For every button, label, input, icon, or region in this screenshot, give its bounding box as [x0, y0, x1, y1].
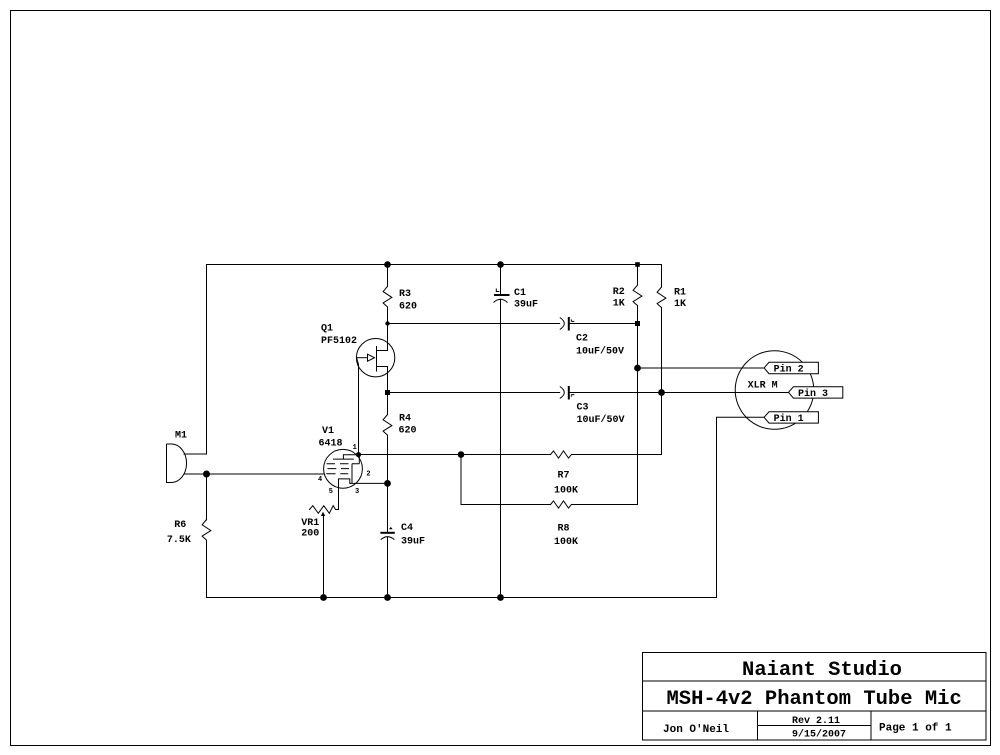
svg-text:C1: C1 [514, 288, 526, 299]
svg-text:Pin 3: Pin 3 [798, 388, 828, 400]
connector tag Pin 2 [764, 362, 818, 373]
node C1 bottom [497, 594, 504, 601]
resistor R2 [633, 285, 642, 306]
wire V1 pin5 lead [336, 488, 339, 509]
wire C2 row right [569, 323, 638, 325]
connector tag Pin 1 [764, 412, 818, 423]
wire R8 row right [572, 504, 638, 506]
resistor R6 [202, 520, 211, 541]
wire R7 row left [359, 454, 551, 456]
svg-text:R4: R4 [399, 414, 411, 425]
wire R6 bottom lead [206, 540, 208, 597]
svg-text:R2: R2 [613, 287, 625, 298]
svg-text:10uF/50V: 10uF/50V [576, 346, 624, 358]
wire R4 bottom lead [387, 435, 389, 483]
wire C4 bottom lead [387, 537, 389, 597]
wire M1 top terminal [184, 453, 207, 455]
svg-text:Naiant Studio: Naiant Studio [742, 659, 902, 682]
node C2 / R2 [635, 321, 640, 326]
svg-text:Page 1 of 1: Page 1 of 1 [879, 723, 952, 735]
trimmer VR1 wiper riser [323, 516, 325, 598]
wire R8 row left [461, 504, 551, 506]
capacitor C4 [380, 533, 394, 540]
wire R4 top lead [387, 393, 389, 415]
svg-text:2: 2 [366, 470, 370, 478]
wire C3 row left [388, 392, 560, 394]
capacitor C3 [560, 386, 575, 400]
svg-text:1K: 1K [674, 299, 686, 310]
wire C2 row left [388, 323, 560, 325]
node C4 bottom [384, 594, 391, 601]
transistor Q1 [356, 339, 394, 377]
capacitor C2 [560, 317, 575, 331]
wire Q1 source [387, 367, 389, 393]
node M1 / R6 [203, 471, 210, 478]
wire top bus [207, 264, 662, 266]
svg-text:V1: V1 [322, 426, 334, 437]
wire C4 top lead [387, 483, 389, 532]
svg-text:R8: R8 [558, 524, 570, 535]
svg-text:XLR M: XLR M [748, 381, 778, 392]
svg-text:R1: R1 [674, 288, 686, 299]
node C1 top [497, 261, 504, 268]
microphone capsule M1 [167, 444, 187, 483]
svg-text:3: 3 [355, 488, 359, 496]
node Q1 source [385, 390, 390, 395]
svg-text:620: 620 [399, 301, 417, 312]
svg-text:C2: C2 [576, 334, 588, 345]
svg-text:39uF: 39uF [514, 300, 538, 311]
node pin2 row [634, 365, 641, 372]
svg-text:Pin 2: Pin 2 [774, 364, 804, 376]
svg-text:1: 1 [353, 444, 357, 452]
svg-text:7.5K: 7.5K [167, 535, 191, 546]
node pin3 row [658, 389, 665, 396]
svg-text:5: 5 [329, 488, 333, 496]
wire left riser from top bus to M1 [206, 265, 208, 455]
title block [643, 653, 987, 741]
wire C3 row right to pin 3 tag [569, 392, 789, 394]
wire Q1 gate down to V1 pin1 [357, 358, 359, 455]
svg-text:4: 4 [318, 476, 322, 484]
node R7 left [458, 451, 465, 458]
svg-text:R3: R3 [399, 289, 411, 300]
svg-text:6418: 6418 [319, 439, 343, 450]
svg-text:9/15/2007: 9/15/2007 [792, 729, 846, 741]
svg-text:C3: C3 [577, 403, 589, 414]
node V1 pin1 [356, 452, 361, 457]
wire R2 top lead [637, 265, 639, 286]
node R3 top [384, 261, 391, 268]
connector tag Pin 3 [789, 387, 843, 398]
wire R3 top lead [387, 265, 389, 287]
wire C1 bottom lead [500, 299, 502, 597]
svg-text:39uF: 39uF [401, 537, 425, 548]
trimmer VR1 wiper arrow [321, 512, 325, 516]
wire R2 column below [637, 306, 639, 505]
svg-text:100K: 100K [554, 486, 578, 497]
svg-text:C4: C4 [401, 523, 413, 534]
svg-text:R6: R6 [174, 520, 186, 531]
svg-text:10uF/50V: 10uF/50V [577, 414, 625, 426]
svg-text:100K: 100K [554, 537, 578, 548]
node Q1 drain / C2 [385, 321, 389, 325]
svg-text:620: 620 [399, 426, 417, 437]
vacuum tube V1 [324, 449, 363, 488]
resistor R8 [551, 501, 572, 508]
resistor R4 [383, 415, 392, 436]
wire bottom bus [207, 597, 717, 599]
node VR1 bottom [320, 594, 327, 601]
wire pin1 riser [717, 417, 765, 597]
wire pin 2 row [638, 367, 765, 369]
wire R7 row right [572, 454, 662, 456]
XLR connector body [735, 351, 814, 430]
wire R1 column below [661, 308, 663, 455]
component labels [167, 287, 828, 548]
node V1 pin3 / C4 [384, 480, 391, 487]
svg-text:VR1: VR1 [301, 518, 319, 529]
capacitor C1 [494, 289, 510, 303]
wire R7-R8 riser [460, 455, 462, 505]
resistor R1 [657, 287, 666, 308]
wire R3 bottom lead [387, 307, 389, 324]
wire R1 top lead [661, 265, 663, 288]
svg-text:Q1: Q1 [321, 324, 333, 335]
wire Q1 drain [387, 324, 389, 351]
capacitor C4 polarity mark [389, 527, 393, 529]
resistor R3 [383, 286, 392, 307]
node R2 top [635, 262, 640, 267]
svg-text:200: 200 [301, 529, 319, 540]
wire R6 top lead [206, 474, 208, 520]
svg-text:1K: 1K [613, 299, 625, 310]
svg-text:Jon O'Neil: Jon O'Neil [663, 724, 729, 736]
wire V1 pin3 to C4 node [350, 482, 388, 484]
svg-text:PF5102: PF5102 [321, 336, 357, 347]
junction dots [203, 261, 665, 601]
svg-text:Pin 1: Pin 1 [774, 413, 804, 425]
svg-text:Rev 2.11: Rev 2.11 [792, 716, 840, 727]
svg-text:M1: M1 [175, 431, 187, 442]
wire C1 top lead [500, 265, 502, 295]
trimmer VR1 zigzag [310, 506, 336, 514]
wire M1 bottom terminal to V1 grid [184, 473, 324, 475]
svg-text:R7: R7 [558, 471, 570, 482]
resistor R7 [551, 451, 572, 458]
svg-text:MSH-4v2 Phantom Tube Mic: MSH-4v2 Phantom Tube Mic [667, 688, 962, 711]
